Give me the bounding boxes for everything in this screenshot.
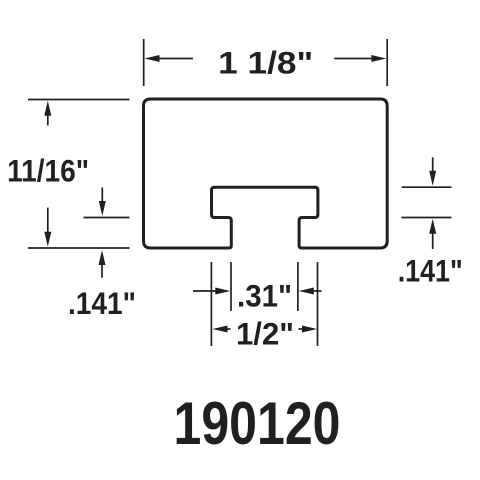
svg-text:1 1/8": 1 1/8" [218,45,313,81]
right .141 up arrow stem [432,231,434,249]
top dim arrowhead left [145,55,160,62]
right .141 extension line upper [402,186,452,188]
left .141 up arrow stem [101,262,103,278]
left dim extension line top [28,99,130,101]
svg-text:1/2": 1/2" [236,315,294,351]
.31 dim right arrow stem [311,290,322,292]
right .141 extension line lower [402,217,452,219]
top dim arrowhead right [371,55,386,62]
left dim extension line bottom [28,247,130,249]
1/2 arrowhead left-pointing [213,326,228,333]
bottom extension line far left [210,262,212,346]
bottom extension line inner left [230,262,232,311]
svg-text:190120: 190120 [174,389,341,457]
left 11/16 arrowhead down [44,232,51,247]
left 11/16 arrowhead up [44,101,51,116]
1/2 dim left arrow stem [224,328,231,330]
1/2 dim right arrow stem [299,328,306,330]
svg-text:.141": .141" [68,285,136,321]
profile outline: T-slot track cross-section [144,99,388,248]
bottom extension line far right [317,262,319,346]
right .141 down arrow stem [432,157,434,174]
svg-text:.141": .141" [398,252,463,288]
top dim line left segment [155,58,193,60]
right .141 arrowhead down [429,171,436,186]
left .141 short extension line [84,217,130,219]
top dim extension line right [386,39,388,86]
left 11/16 upper arrow stem [47,112,49,126]
left .141 arrowhead up [99,250,106,265]
right .141 arrowhead up [429,219,436,234]
.31 arrowhead right-pointing [215,288,230,295]
bottom extension line inner right [297,262,299,311]
top dim extension line left [143,39,145,86]
left 11/16 lower arrow stem [47,208,49,235]
left .141 down arrow stem [101,188,103,206]
left .141 arrowhead down [99,201,106,216]
svg-text:.31": .31" [237,278,292,314]
1/2 arrowhead right-pointing [302,326,317,333]
.31 arrowhead left-pointing [299,288,314,295]
svg-text:11/16": 11/16" [7,153,89,189]
.31 dim left arrow stem [193,290,218,292]
top dim line right segment [334,58,375,60]
